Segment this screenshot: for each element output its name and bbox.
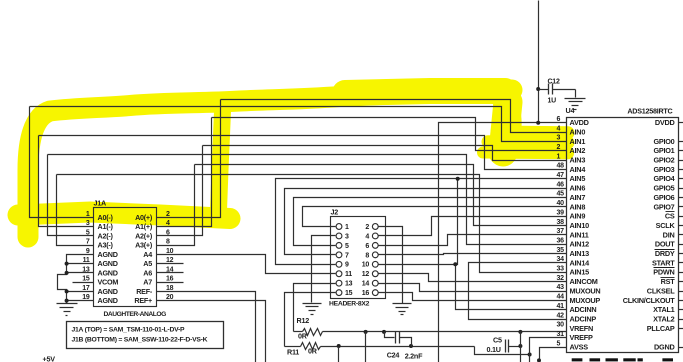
svg-text:9: 9 [345, 262, 349, 269]
svg-text:7: 7 [345, 252, 349, 259]
svg-text:6: 6 [557, 116, 561, 123]
svg-text:AIN10: AIN10 [570, 221, 590, 230]
svg-text:A3(+): A3(+) [135, 241, 153, 250]
wire: J1A pin4 A1(+) riser [157, 118, 212, 227]
node: AVDD junction with C12 branch [536, 121, 540, 125]
wire: VREFP net drop to bottom edge [338, 347, 340, 362]
svg-text:XTAL2: XTAL2 [653, 314, 675, 323]
node: U-loop junction with VREFP vertical [528, 353, 532, 357]
svg-text:16: 16 [362, 290, 370, 297]
ground for J2 pin2 [393, 303, 412, 305]
wire: J2 pin2 to ground [379, 227, 403, 304]
svg-text:AIN6: AIN6 [570, 184, 586, 193]
svg-text:8: 8 [166, 239, 170, 246]
J2 pin circle 13 [336, 280, 342, 286]
svg-text:12: 12 [362, 271, 370, 278]
svg-text:46: 46 [557, 181, 565, 188]
wire: J2 pin5 riser to U4 AIN7 [294, 198, 567, 246]
wire: J2 pin15 dropper to R11 [285, 293, 336, 347]
svg-text:AIN4: AIN4 [570, 165, 587, 174]
J2 pin circle 4 [372, 233, 378, 239]
svg-text:1: 1 [86, 211, 90, 218]
svg-text:10: 10 [166, 248, 174, 255]
cut-off text at bottom edge [572, 358, 583, 361]
note box with J1A/J1B part numbers [67, 322, 224, 349]
node: AGND junction pin19 [65, 299, 69, 303]
wire: J2 pin12 jog to U4 AINCOM [379, 274, 567, 282]
svg-text:DAUGHTER-ANALOG: DAUGHTER-ANALOG [104, 311, 167, 318]
wire: VREFN net drop to bottom edge [365, 332, 367, 362]
svg-text:J1A: J1A [94, 199, 106, 208]
J2 pin circle 3 [336, 233, 342, 239]
node: AGND junction pin11 [65, 262, 69, 266]
U4 right pin stub GPIO5 [679, 188, 683, 190]
node: VREFP net drop at x=338.7 [337, 344, 341, 348]
wire: J1A pin2 A0(+) riser [157, 100, 221, 218]
U4 right pin stub GPIO2 [679, 160, 683, 162]
J2 pin circle 16 [372, 290, 378, 296]
svg-text:3: 3 [557, 135, 561, 142]
overline for active-low CS [666, 211, 675, 213]
svg-text:AIN7: AIN7 [570, 193, 586, 202]
svg-text:ADS1258IRTC: ADS1258IRTC [627, 107, 672, 116]
svg-text:4: 4 [557, 125, 561, 132]
wire: A1+ bus to U4 AIN2 [212, 118, 567, 151]
U4 right pin stub PDWN [679, 272, 683, 274]
svg-text:U4: U4 [566, 106, 575, 115]
wire: J2 pin16 jog to U4 MUXOUP [379, 293, 567, 301]
wire: J1A pin20 REF+ down to bottom edge [157, 301, 266, 362]
svg-text:35: 35 [557, 247, 565, 254]
svg-text:2.2nF: 2.2nF [405, 352, 423, 361]
node: T junction of pin10 riser with AIN5 wire [456, 177, 460, 181]
svg-text:43: 43 [557, 284, 565, 291]
svg-text:18: 18 [166, 285, 174, 292]
svg-text:0R: 0R [298, 332, 308, 341]
wire: J1A pin8 A3(+) riser [157, 165, 195, 246]
svg-text:DGND: DGND [654, 343, 675, 352]
svg-text:VREFN: VREFN [570, 324, 593, 333]
wire: A0- bus to U4 AIN1 [30, 107, 567, 142]
svg-text:PLLCAP: PLLCAP [647, 324, 675, 333]
wire: J1A pin14 A6 stub [157, 272, 184, 274]
J2 pin circle 9 [336, 261, 342, 267]
wire: J1A pin16 A7 stub [157, 282, 184, 284]
node: VREFN junction with reference vertical [518, 330, 522, 334]
J2 pin circle 11 [336, 271, 342, 277]
svg-text:RST: RST [661, 277, 676, 286]
svg-text:4: 4 [365, 233, 369, 240]
svg-text:MUXOUN: MUXOUN [570, 286, 601, 295]
svg-text:17: 17 [82, 285, 90, 292]
svg-text:A0(-): A0(-) [98, 213, 114, 222]
svg-text:6: 6 [365, 243, 369, 250]
svg-text:AINCOM: AINCOM [570, 277, 598, 286]
wire: U4 VREFP to vertical x=529.6 to bottom [530, 338, 567, 362]
svg-text:39: 39 [557, 209, 565, 216]
svg-text:CLKSEL: CLKSEL [647, 286, 675, 295]
overline for active-low DRDY [655, 249, 675, 251]
U4 right pin stub START [679, 262, 683, 264]
wire: U4 AVSS to vertical x=539 to bottom [540, 348, 567, 362]
overline for active-low PDWN [654, 267, 675, 269]
svg-text:34: 34 [557, 256, 565, 263]
ground for C12 [575, 90, 577, 98]
svg-text:GPIO2: GPIO2 [653, 156, 674, 165]
svg-text:0R: 0R [308, 347, 318, 356]
svg-text:32: 32 [557, 275, 565, 282]
svg-text:AGND: AGND [98, 259, 118, 268]
svg-text:J1A (TOP) = SAM_TSM-110-01-L-D: J1A (TOP) = SAM_TSM-110-01-L-DV-P [72, 327, 186, 334]
U4 right pin stub DIN [679, 234, 683, 236]
wire: U4 AIN14 loop to ADCINP [469, 263, 567, 320]
svg-text:+5V: +5V [43, 355, 56, 362]
U4 right pin stub RST [679, 281, 683, 283]
U4 right pin stub CS [679, 216, 683, 218]
svg-text:DIN: DIN [663, 230, 675, 239]
wire: +5VA vertical from top edge to AVDD node [538, 1, 540, 123]
svg-text:44: 44 [557, 294, 565, 301]
highlighter stroke: vertical over J1A risers [218, 100, 223, 224]
U4 right pin stub PLLCAP [679, 328, 683, 330]
svg-text:REF+: REF+ [134, 296, 152, 305]
svg-text:42: 42 [557, 312, 565, 319]
wire: J2 pin8 to U4 AIN13 [379, 254, 567, 255]
svg-text:CS: CS [665, 212, 675, 221]
svg-text:7: 7 [86, 239, 90, 246]
J2 pin circle 15 [336, 290, 342, 296]
svg-text:PDWN: PDWN [653, 268, 674, 277]
svg-text:DVDD: DVDD [655, 118, 675, 127]
svg-text:A1(-): A1(-) [98, 222, 114, 231]
svg-text:AVDD: AVDD [570, 118, 589, 127]
wire: J2 pin14 jog to U4 MUXOUN [379, 284, 567, 292]
node: AVSS junction near bottom edge [537, 358, 541, 362]
J2 pin circle 2 [372, 224, 378, 230]
highlighter dab: AIN1 row [488, 135, 568, 149]
svg-text:ADCINP: ADCINP [570, 314, 597, 323]
wire: J2 pin3 to ground [312, 236, 336, 303]
svg-text:11: 11 [345, 271, 352, 278]
svg-text:GPIO0: GPIO0 [653, 137, 674, 146]
svg-text:XTAL1: XTAL1 [653, 305, 675, 314]
U4 right pin stub DVDD [679, 122, 683, 124]
capacitor C5 0.1U across VREFN/VREFP [505, 340, 507, 353]
wire: J2 pin1 riser over box to U4 AIN8 [303, 207, 567, 227]
svg-text:GPIO1: GPIO1 [653, 146, 674, 155]
svg-text:9: 9 [86, 248, 90, 255]
svg-text:AIN11: AIN11 [570, 230, 589, 239]
svg-text:VCOM: VCOM [98, 278, 119, 287]
svg-text:33: 33 [557, 266, 565, 273]
svg-text:AIN9: AIN9 [570, 212, 586, 221]
svg-text:16: 16 [166, 276, 174, 283]
svg-text:AIN5: AIN5 [570, 174, 586, 183]
svg-text:R12: R12 [297, 316, 310, 325]
svg-text:DOUT: DOUT [655, 240, 675, 249]
svg-text:A2(+): A2(+) [135, 231, 153, 240]
svg-text:AIN8: AIN8 [570, 202, 586, 211]
svg-text:A2(-): A2(-) [98, 231, 114, 240]
U4 right pin stub XTAL2 [679, 319, 683, 321]
svg-text:AIN1: AIN1 [570, 137, 586, 146]
svg-text:40: 40 [557, 200, 565, 207]
J2 pin circle 12 [372, 271, 378, 277]
J2 pin circle 6 [372, 243, 378, 249]
wire: A2+ bus to U4 AIN3 [203, 146, 567, 161]
J2 pin circle 14 [372, 280, 378, 286]
svg-text:AGND: AGND [98, 296, 118, 305]
svg-text:2: 2 [365, 224, 369, 231]
wire: J2 pin13 dropper to R12 [294, 284, 336, 332]
wire: J2 pin10 riser joining AIN5 net [379, 179, 458, 265]
svg-text:VREFP: VREFP [570, 333, 593, 342]
svg-text:A0(+): A0(+) [135, 213, 153, 222]
U4 right pin stub GPIO7 [679, 206, 683, 208]
svg-text:2: 2 [166, 211, 170, 218]
node: AGND junction pin13 [65, 271, 69, 275]
node: AGND junction pin17 [65, 289, 69, 293]
svg-text:AIN3: AIN3 [570, 156, 586, 165]
svg-text:41: 41 [557, 303, 565, 310]
highlighter dab: AIN0 row [497, 126, 568, 140]
wire: J1A pin3 A1(-) riser [39, 136, 94, 227]
svg-text:13: 13 [345, 281, 353, 288]
U4 right pin stub GPIO0 [679, 141, 683, 143]
svg-text:AVSS: AVSS [570, 343, 589, 352]
svg-text:1U: 1U [548, 98, 557, 105]
U4 right pin stub CLKSEL [679, 291, 683, 293]
svg-text:A1(+): A1(+) [135, 222, 153, 231]
svg-text:A4: A4 [143, 250, 152, 259]
svg-text:CLKIN/CLKOUT: CLKIN/CLKOUT [623, 296, 676, 305]
wire: J1A pin15 VCOM stub [73, 282, 94, 284]
node: C24 bottom connection [409, 344, 413, 348]
svg-text:15: 15 [345, 290, 353, 297]
svg-text:AIN2: AIN2 [570, 146, 586, 155]
J2 pin circle 10 [372, 261, 378, 267]
wire: A2- bus to U4 AIN12 [48, 155, 567, 245]
ground for J2 pin3 [303, 303, 322, 305]
U4 right pin stub GPIO6 [679, 197, 683, 199]
wire: J2 pin4 to U4 AIN9 [379, 217, 567, 236]
svg-text:AIN12: AIN12 [570, 240, 590, 249]
wire: J1A AGND bus pins 9,11,13 with bypass jog around VCOM, pins 17,19 to ground [58, 255, 94, 304]
svg-text:J1B (BOTTOM) = SAM_SSW-110-22-: J1B (BOTTOM) = SAM_SSW-110-22-F-D-VS-K [72, 337, 208, 344]
wire: A3+ bus to U4 AIN10 [195, 165, 567, 226]
wire: J1A pin10 A4 jog down to J2 pin11 [157, 255, 336, 274]
svg-text:REF-: REF- [136, 287, 153, 296]
svg-text:3: 3 [345, 233, 349, 240]
connector J2 body [331, 217, 386, 299]
overline for active-low RST [661, 277, 675, 279]
U4 right pin stub SCLK [679, 225, 683, 227]
svg-text:48: 48 [557, 163, 565, 170]
node: C5 right plate junction [518, 344, 522, 348]
wire: U4 ADCINN west stub joining J2 pin10 net [456, 265, 567, 310]
svg-text:HEADER-8X2: HEADER-8X2 [329, 301, 370, 308]
wire: A1- bus to U4 AIN4 [39, 136, 567, 170]
svg-text:AIN0: AIN0 [570, 127, 586, 136]
U4 right pin stub GPIO3 [679, 169, 683, 171]
svg-text:0.1U: 0.1U [487, 345, 501, 354]
U4 right pin stub GPIO1 [679, 150, 683, 152]
svg-text:AIN15: AIN15 [570, 268, 590, 277]
svg-text:47: 47 [557, 172, 565, 179]
svg-text:MUXOUP: MUXOUP [570, 296, 601, 305]
svg-text:A7: A7 [143, 278, 152, 287]
wire: J1A pin5 A2(-) riser [48, 155, 94, 236]
svg-text:37: 37 [557, 228, 565, 235]
wire: J1A pin7 A3(-) riser [57, 175, 94, 246]
svg-text:C12: C12 [548, 79, 560, 86]
svg-text:10: 10 [362, 262, 370, 269]
J2 pin circle 7 [336, 252, 342, 258]
highlighter stroke: thicker mid-band over A0 wires [345, 91, 505, 93]
IC U4 ADS1258IRTC body [567, 118, 679, 353]
svg-text:C24: C24 [387, 350, 400, 359]
wire: A0+ bus to U4 AIN0 [221, 100, 567, 133]
svg-text:GPIO6: GPIO6 [653, 193, 674, 202]
capacitor C12 [539, 89, 549, 91]
svg-text:R11: R11 [287, 348, 299, 357]
svg-text:GPIO4: GPIO4 [653, 174, 675, 183]
highlighter stroke: left hook and long top band [28, 90, 512, 237]
U4 right pin stub DGND [679, 347, 683, 349]
svg-text:14: 14 [362, 281, 370, 288]
svg-text:1: 1 [345, 224, 349, 231]
svg-text:45: 45 [557, 191, 565, 198]
svg-text:AGND: AGND [98, 287, 118, 296]
resistor R11 0R in VREFP net [285, 346, 301, 348]
svg-text:AGND: AGND [98, 268, 118, 277]
svg-text:15: 15 [82, 276, 90, 283]
svg-text:A5: A5 [143, 259, 152, 268]
svg-text:A3(-): A3(-) [98, 241, 114, 250]
svg-text:2: 2 [557, 144, 561, 151]
wire: VREFP bypass U-loop under C5 [475, 347, 530, 355]
U4 right pin stub DOUT [679, 244, 683, 246]
svg-text:START: START [652, 258, 675, 267]
svg-text:GPIO3: GPIO3 [653, 165, 674, 174]
ground for J1A AGND [57, 303, 78, 305]
wire: J1A pin1 A0(-) up left riser to bus [30, 107, 94, 218]
svg-text:AIN13: AIN13 [570, 249, 590, 258]
J2 pin circle 5 [336, 243, 342, 249]
svg-text:1: 1 [557, 153, 561, 160]
svg-text:J2: J2 [331, 208, 339, 217]
svg-text:36: 36 [557, 237, 565, 244]
U4 right pin stub XTAL1 [679, 309, 683, 311]
svg-text:ADCINN: ADCINN [570, 305, 597, 314]
node: C12 junction on +5VA [536, 87, 540, 91]
svg-text:30: 30 [557, 322, 565, 329]
svg-text:38: 38 [557, 219, 565, 226]
svg-text:SCLK: SCLK [656, 221, 676, 230]
resistor R12 0R in VREFN net [294, 331, 303, 333]
svg-text:5: 5 [557, 340, 561, 347]
svg-text:C5: C5 [493, 336, 502, 345]
svg-text:31: 31 [557, 331, 565, 338]
wire: A3- bus to U4 AIN15 [57, 175, 567, 273]
connector J1A body [94, 208, 157, 307]
U4 right pin stub CLKIN/CLKOUT [679, 300, 683, 302]
svg-text:A6: A6 [143, 268, 152, 277]
svg-text:AIN14: AIN14 [570, 258, 591, 267]
U4 right pin stub GPIO4 [679, 178, 683, 180]
wire: J2 pin9 riser to U4 AIN5 [276, 179, 567, 265]
wire: J1A pin12 A5 stub [157, 263, 184, 265]
wire: J1A pin6 A2(+) riser [157, 146, 203, 236]
capacitor C24 2.2nF between VREFN and VREFP nets [385, 332, 395, 338]
highlighter stroke: across J1A top rows [18, 212, 230, 219]
wire: J1A pin18 REF- down to bottom edge [157, 292, 256, 362]
svg-text:DRDY: DRDY [655, 249, 675, 258]
node: VREFN net drop at x=365.6 [364, 330, 368, 334]
J2 pin circle 8 [372, 252, 378, 258]
highlighter stroke: bend down to AIN0 [503, 102, 508, 152]
svg-text:GPIO5: GPIO5 [653, 184, 674, 193]
wire: AVDD net from lower analog supply, corner at x=438 [439, 123, 567, 362]
wire: reference vertical at x=520.4 to bottom [520, 332, 522, 362]
wire: J2 pin7 riser to U4 AIN6 [285, 189, 567, 255]
svg-text:GPIO7: GPIO7 [653, 202, 674, 211]
J2 pin circle 1 [336, 224, 342, 230]
svg-text:AGND: AGND [98, 250, 118, 259]
wire: J2 pin6 to U4 AIN11 [379, 235, 567, 246]
node: C24 top connection [382, 330, 386, 334]
highlighter dab: AIN2 row [483, 147, 568, 160]
U4 right pin stub DRDY [679, 253, 683, 255]
svg-text:8: 8 [365, 252, 369, 259]
svg-text:5: 5 [345, 243, 349, 250]
node: ADCINN junction on pin10 wire [453, 262, 457, 266]
